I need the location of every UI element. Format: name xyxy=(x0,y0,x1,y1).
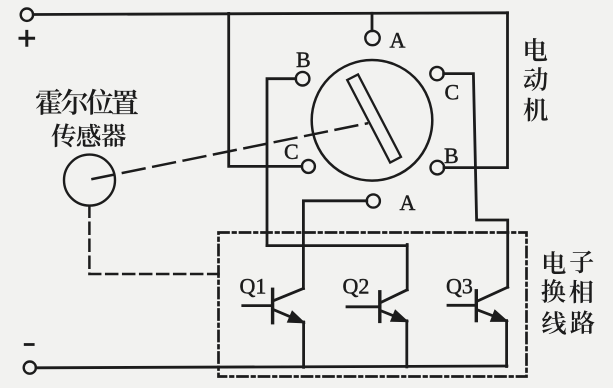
transistor Q1 xyxy=(243,289,304,368)
wire positive top rail xyxy=(33,13,507,15)
node C upper-right terminal xyxy=(430,67,443,80)
wire negative bottom rail xyxy=(36,366,507,368)
motor M1 rotor bar xyxy=(347,74,401,162)
svg-text:B: B xyxy=(444,143,459,168)
svg-text:B: B xyxy=(296,47,311,72)
label 传感器 (sensor) xyxy=(52,123,126,147)
wire right rail from top rail down to terminal B (lower-right) xyxy=(444,13,508,168)
terminal - (negative supply) xyxy=(24,345,36,374)
svg-text:A: A xyxy=(400,190,416,215)
label 霍尔位置 (hall position) xyxy=(36,89,138,115)
node B upper-left terminal xyxy=(296,72,310,86)
wire from terminal C (upper-right) down to Q3 collector xyxy=(444,74,508,288)
label 电动机 (electric motor) xyxy=(524,38,548,121)
wire from terminal B (upper-left) down to collector bus xyxy=(267,79,296,246)
dashed hall sensor output wire to commutation box xyxy=(89,206,218,274)
label 电子换相线路 (electronic commutation circuit) xyxy=(541,251,594,335)
node A bottom terminal xyxy=(367,194,380,207)
motor M1 stator circle xyxy=(312,60,433,181)
wire stub from top rail to terminal A (top) xyxy=(371,13,374,31)
svg-text:C: C xyxy=(445,80,460,105)
node C lower-left terminal xyxy=(302,160,315,173)
wire from terminal A (bottom) left and down to Q1 collector xyxy=(303,201,366,289)
svg-text:Q2: Q2 xyxy=(343,274,370,299)
hall position sensor body xyxy=(64,155,115,206)
svg-text:Q3: Q3 xyxy=(446,274,473,299)
svg-text:C: C xyxy=(284,139,299,164)
wire horizontal bus to Q2 collector xyxy=(267,244,407,247)
svg-text:Q1: Q1 xyxy=(240,274,267,299)
dashed sensing line from hall sensor to rotor xyxy=(93,123,368,179)
transistor Q3 xyxy=(448,287,508,366)
terminal + (positive supply) xyxy=(20,9,34,46)
wire from top rail down-left to terminal C (lower-left) xyxy=(229,13,302,166)
node A top terminal xyxy=(365,31,379,45)
electronic commutation circuit boundary box (dash-dot) xyxy=(219,233,527,377)
transistor Q2 xyxy=(347,245,407,367)
node B lower-right terminal xyxy=(431,161,445,175)
svg-text:A: A xyxy=(390,28,406,53)
